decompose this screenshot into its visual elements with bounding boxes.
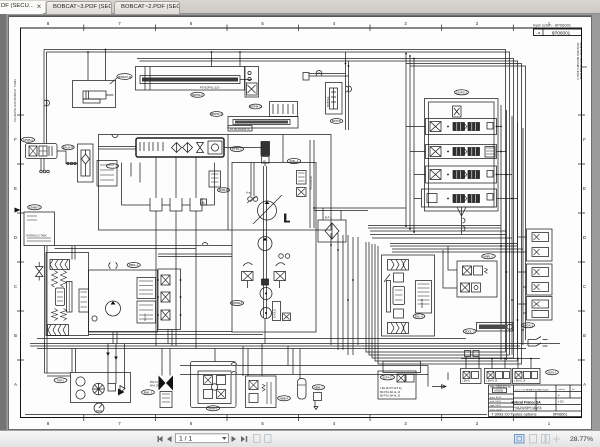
check valves pair — [279, 254, 284, 259]
shaft coupling (dark) — [262, 279, 269, 285]
comb feeder stubs — [131, 157, 196, 198]
svg-text:BDPM-C: BDPM-C — [250, 105, 261, 109]
svg-text:6PVB-1: 6PVB-1 — [23, 138, 33, 142]
pilot feed pair — [248, 163, 280, 289]
bottom-right valve group 2 — [485, 369, 512, 384]
svg-text:BD-PS/L.BA-AL 13: BD-PS/L.BA-AL 13 — [380, 391, 401, 394]
svg-text:6P06001: 6P06001 — [553, 412, 567, 416]
wire drop pair to valve block 6PVB-1 — [44, 50, 47, 144]
right drive: track shoe bottom — [388, 323, 409, 334]
wire drops into top cylinder — [88, 50, 240, 81]
pedal wedges — [159, 376, 166, 391]
cylinder 6LFC barrel dark — [140, 76, 240, 84]
left margin micro text — [13, 79, 17, 122]
svg-text:B P 1: B P 1 — [325, 216, 332, 220]
label oval BOB-P — [218, 188, 230, 193]
svg-text:verif. 04.02: verif. 04.02 — [490, 400, 502, 403]
svg-text:5: 5 — [261, 421, 264, 426]
left rail drops — [113, 332, 300, 379]
zone numbers top — [47, 21, 551, 26]
svg-text:BDTNK: BDTNK — [332, 119, 342, 123]
svg-text:100PS-1: 100PS-1 — [456, 91, 467, 95]
svg-text:3: 3 — [404, 21, 407, 26]
svg-text:10.00.000/0470: 10.00.000/0470 — [230, 127, 250, 131]
drops into bottom clusters — [162, 346, 293, 376]
wire leader from oval — [110, 78, 117, 84]
filter assembly housing — [136, 138, 224, 157]
zone numbers bottom — [47, 421, 551, 426]
drops into groups — [466, 357, 531, 369]
svg-text:C: C — [583, 284, 586, 289]
pilot valve block 6PVB-1 — [26, 144, 58, 159]
pilot lever left — [242, 272, 254, 281]
accumulator — [298, 379, 307, 400]
pedal valve box — [160, 392, 172, 408]
svg-text:BOBTAIL: BOBTAIL — [326, 96, 330, 107]
right drive: motor block — [416, 281, 432, 314]
wire hookups 6MRL-1 — [443, 246, 457, 288]
svg-text:PS-92/PSL/120: PS-92/PSL/120 — [200, 86, 220, 90]
valve at lift cylinder port — [245, 67, 259, 98]
svg-text:BDPM-1: BDPM-1 — [211, 112, 222, 116]
cooler triangles — [118, 389, 125, 396]
cylinder 6BKC piston lines — [83, 91, 114, 103]
svg-text:1 / 1: 1 / 1 — [179, 436, 192, 443]
page input box — [176, 434, 229, 443]
relief hourglass — [197, 143, 204, 153]
svg-text:L.Ba AL 13: L.Ba AL 13 — [514, 380, 526, 383]
svg-text:M: M — [202, 201, 205, 205]
zone row ticks left — [17, 115, 24, 360]
left drive motor housing — [89, 270, 158, 332]
svg-text:606L-1: 606L-1 — [290, 159, 299, 163]
left margin fold marker — [15, 208, 21, 213]
wire pair with hops to sender — [303, 73, 309, 81]
zone letters right — [583, 137, 586, 387]
wire bus 6 — [410, 66, 526, 340]
svg-text:6P06001: 6P06001 — [552, 30, 571, 35]
label oval MWM1A — [230, 301, 243, 306]
pilot valve narrow box — [209, 171, 221, 187]
left drive: shuttle box — [79, 289, 89, 312]
label oval 100PS-1 — [455, 90, 469, 95]
svg-text:MAX 20: MAX 20 — [150, 385, 159, 388]
svg-text:BOB-P: BOB-P — [219, 188, 228, 192]
aux valve small boxes right of pumps — [297, 171, 307, 185]
motor box M — [201, 199, 207, 205]
wire bus 5 — [378, 64, 522, 365]
zone column ticks top — [84, 25, 514, 32]
zone column ticks bottom — [84, 415, 514, 422]
svg-text:6MRL-1: 6MRL-1 — [484, 255, 494, 259]
wire to filter BALN-R — [57, 151, 78, 164]
bottom rail near frame — [25, 414, 487, 416]
svg-text:MBB-1: MBB-1 — [314, 386, 323, 390]
svg-text:A: A — [583, 382, 586, 387]
check valve diamond 1 — [172, 143, 182, 153]
wire bus loop 2 — [47, 52, 510, 355]
svg-text:PBDL-1: PBDL-1 — [129, 263, 139, 267]
cylinder 6LFC (lift) body — [136, 67, 245, 91]
right drive: link top — [394, 273, 404, 282]
svg-text:THR-1: THR-1 — [56, 379, 65, 383]
cylinder 6DDL-2 — [463, 329, 476, 334]
left drive: spring top pair — [52, 271, 67, 288]
svg-text:7: 7 — [118, 421, 121, 426]
label oval MAN-L — [206, 406, 219, 411]
svg-text:MOTOR: MOTOR — [421, 299, 424, 308]
left drive outer housing — [46, 253, 89, 336]
manifold comb structure — [122, 163, 215, 206]
gear pump circle 1 — [260, 288, 272, 300]
charge pump circle — [258, 237, 272, 251]
svg-text:BOBAT-R: BOBAT-R — [118, 75, 132, 79]
hop wires across bottom — [180, 366, 428, 375]
tank suction lines with hop — [55, 246, 264, 335]
left drive: brake valve — [56, 288, 65, 306]
label oval MDA-L — [546, 370, 559, 375]
svg-text:4: 4 — [333, 421, 336, 426]
manifold sub-box left — [97, 161, 117, 187]
drive feed pair — [72, 246, 75, 260]
solenoid block 6MRL-1 — [482, 254, 496, 259]
svg-text:L.Ba AL: L.Ba AL — [462, 380, 471, 383]
pressure gauge below — [94, 403, 104, 413]
aux block MBB-A — [246, 376, 277, 408]
nav: next/last — [232, 436, 248, 442]
right drive: control valve — [393, 287, 405, 305]
svg-text:D: D — [583, 235, 586, 240]
arrow out right — [428, 366, 448, 389]
svg-text:dess. 04.02: dess. 04.02 — [490, 397, 502, 399]
svg-text:E: E — [583, 186, 586, 191]
filter column EVOLD — [273, 302, 281, 321]
svg-text:3: 3 — [404, 421, 407, 426]
wire bus loop 3 — [137, 59, 514, 359]
valve section row 3 — [426, 166, 497, 183]
label oval THR-1 — [54, 378, 67, 383]
bottom long rail 1 — [30, 343, 560, 345]
pilot solenoid atop bank — [453, 106, 462, 117]
svg-text:A: A — [14, 382, 17, 387]
svg-text:6DMB-2: 6DMB-2 — [29, 206, 40, 210]
svg-text:BD-PS/L.BA-AL 10: BD-PS/L.BA-AL 10 — [380, 395, 401, 398]
valve battery box left of pumps — [158, 269, 181, 330]
svg-text:6MDA-1: 6MDA-1 — [523, 323, 534, 327]
svg-text:EVOLD: EVOLD — [273, 309, 277, 318]
valve section row 4 — [422, 189, 497, 207]
title block — [489, 385, 582, 417]
svg-text:ind der.: ind der. — [558, 388, 566, 391]
left drive: track shoe top — [50, 260, 70, 270]
right column valve box 2 — [527, 264, 553, 295]
cylinder 6TLC (tilt) body — [228, 117, 298, 129]
svg-text:2: 2 — [476, 421, 479, 426]
svg-text:hydr schm - 6P06001: hydr schm - 6P06001 — [533, 23, 572, 28]
left long drop wires — [45, 246, 48, 373]
svg-text:7: 7 — [118, 21, 121, 26]
pump block with gauge circle — [208, 141, 222, 154]
svg-text:4: 4 — [333, 21, 336, 26]
svg-text:F: F — [14, 137, 17, 142]
nav: first page — [158, 436, 172, 442]
label oval sender — [330, 119, 342, 124]
drain circles trio — [40, 170, 43, 173]
bottom-right valve group 1 — [461, 369, 482, 384]
svg-text:ECN 04-117 HYD SCHM 6P06: ECN 04-117 HYD SCHM 6P06 — [579, 43, 583, 80]
svg-text:BAL-A: BAL-A — [415, 315, 423, 319]
svg-text:6: 6 — [190, 21, 193, 26]
mid horizontal band wires — [314, 208, 406, 211]
wire stubs to right column — [518, 237, 527, 313]
svg-text:8: 8 — [47, 21, 50, 26]
left drive: lever cyl — [67, 282, 73, 313]
junction dots top band — [87, 49, 415, 67]
check valve diamond 2 — [183, 143, 193, 153]
feeder bar 6STA — [383, 361, 421, 372]
disabled page icons — [254, 435, 272, 443]
reservoir block 6DMB-2 — [28, 205, 42, 210]
L-port thick mark — [284, 214, 290, 223]
comb tooth 2 — [170, 198, 182, 211]
pilot lever right — [274, 272, 286, 281]
right column valve box 1 — [527, 229, 553, 261]
svg-text:F: F — [583, 137, 586, 142]
selector circle with cross — [93, 383, 105, 395]
svg-text:A-a: A-a — [246, 191, 251, 195]
svg-text:BALN-R: BALN-R — [63, 146, 73, 150]
comb drops — [156, 211, 196, 349]
bus stubs into bank rows — [497, 127, 518, 199]
svg-text:5: 5 — [261, 21, 264, 26]
sender unit (level gauge) — [326, 83, 343, 115]
svg-text:MBB-A: MBB-A — [280, 397, 289, 401]
svg-text:s 553: s 553 — [558, 402, 564, 404]
svg-text:CHARGEUSE COMPACTE: CHARGEUSE COMPACTE — [515, 407, 542, 410]
label oval PTRL-1 — [230, 147, 243, 152]
drive motor circle — [106, 301, 121, 316]
svg-text:28.77%: 28.77% — [570, 436, 593, 443]
label oval MBB-A — [278, 396, 291, 401]
right drive: track shoe top — [388, 260, 409, 271]
valve bank outer housing — [425, 99, 499, 212]
gauge circle 2 — [76, 390, 85, 399]
bottom long rail 2 — [30, 345, 520, 347]
steering cluster MAN-L — [191, 362, 237, 408]
svg-text:E: E — [14, 186, 17, 191]
zone row ticks right — [578, 115, 585, 360]
wire double hop — [463, 218, 466, 231]
svg-text:L.Ba AL 10: L.Ba AL 10 — [486, 380, 498, 383]
svg-text:Bobcat France SA: Bobcat France SA — [512, 401, 542, 405]
left drive: track shoe bottom — [48, 325, 69, 336]
flush valve bowtie — [36, 267, 44, 277]
svg-text:2: 2 — [476, 21, 479, 26]
hydrostatic enclosure — [232, 163, 316, 333]
svg-text:MAN-L: MAN-L — [209, 407, 218, 411]
big enclosure box center — [99, 135, 332, 231]
svg-text:date - M000 00.0 kg: date - M000 00.0 kg — [490, 386, 511, 389]
svg-text:6STA-D: 6STA-D — [383, 376, 393, 380]
right revision text strip — [576, 43, 583, 81]
view mode icons — [515, 435, 525, 444]
svg-text:MULTI: MULTI — [144, 313, 147, 321]
wire stub into filter assembly — [99, 142, 164, 151]
svg-text:8: 8 — [47, 421, 50, 426]
filter BALN-R — [62, 145, 74, 150]
svg-text:6DDL-2: 6DDL-2 — [465, 330, 475, 334]
main pump circle (variable) — [258, 201, 277, 220]
bottom rail short — [37, 338, 466, 340]
wire drops beside sender — [346, 52, 349, 130]
center vertical bundle — [331, 233, 358, 355]
valve section row 2 — [426, 145, 497, 159]
right vertical bus bundle — [501, 105, 523, 360]
cylinder 6BKC (bucket) body — [73, 81, 116, 108]
label oval BAL-A — [413, 314, 425, 319]
multi valve cluster right — [137, 278, 156, 299]
label oval BDPM-C — [249, 104, 261, 109]
label oval PBDL-1 — [127, 263, 140, 268]
row stubs to left drops — [406, 127, 426, 199]
case drain circle — [92, 316, 97, 321]
inner enclosure text column — [310, 140, 314, 228]
junction dots on right buses — [496, 126, 524, 331]
small top fittings — [465, 351, 471, 357]
cylinder 6LFC rod — [145, 67, 252, 91]
svg-text:PS-92/PSL/120 BOBCAT T3093: PS-92/PSL/120 BOBCAT T3093 — [13, 79, 17, 122]
label oval 6MDA-1 — [521, 323, 534, 328]
gear pump circle 2 — [261, 308, 272, 319]
svg-text:B: B — [583, 333, 586, 338]
svg-text:MODB: MODB — [495, 389, 504, 393]
bottom-right valve group 3 — [513, 369, 541, 384]
svg-text:fol: fol — [572, 389, 575, 391]
wire tails below bank — [457, 207, 466, 234]
wire mid drops — [406, 54, 414, 233]
cylinder 6BKC barrel — [83, 91, 106, 99]
svg-text:ech 1:1 SCHEMA HYDRAULIQUE: ech 1:1 SCHEMA HYDRAULIQUE — [515, 389, 549, 392]
wires below 6PVB-1 — [41, 159, 44, 171]
right drive housing — [382, 255, 435, 336]
gauge feed drops — [72, 344, 125, 389]
svg-text:B: B — [14, 333, 17, 338]
wire bus loop 4 — [140, 61, 518, 361]
valve box over tilt cylinder — [270, 102, 298, 117]
svg-text:L.Ba 207/07 20.5 kg: L.Ba 207/07 20.5 kg — [380, 387, 402, 390]
svg-text:T 3093 C0 Toutes options: T 3093 C0 Toutes options — [491, 411, 536, 416]
gauge cluster box — [71, 373, 131, 403]
svg-text:MDA-L: MDA-L — [548, 371, 557, 375]
gauge circle 1 — [76, 377, 85, 386]
label oval BWL-1 — [142, 390, 155, 395]
left drive: spring bottom pair — [52, 309, 67, 321]
bottom-right feeder bus — [461, 358, 540, 360]
right column valve box 3 — [527, 297, 553, 321]
svg-text:C: C — [14, 284, 17, 289]
label oval 6TLC — [210, 112, 223, 117]
top-right part number box — [534, 29, 582, 36]
drain valve under MBB-1 — [314, 393, 322, 401]
svg-text:A: A — [558, 394, 560, 397]
comb tooth 1 — [150, 198, 162, 211]
wire bus loop 1 — [44, 50, 506, 353]
label oval BDPM-2 — [191, 92, 205, 97]
shaft arc marks — [109, 263, 117, 269]
label oval BALN-C — [107, 164, 119, 169]
svg-text:appr. 04.02: appr. 04.02 — [490, 404, 502, 407]
svg-text:D: D — [14, 235, 17, 240]
breaker switches lower right — [528, 337, 548, 347]
selector aux box — [108, 384, 116, 392]
svg-text:BDPM-2: BDPM-2 — [192, 93, 203, 97]
comb tooth 3 — [190, 198, 202, 211]
svg-text:6: 6 — [190, 421, 193, 426]
wire to solenoid — [224, 147, 261, 149]
label oval 6PVB-1 — [21, 137, 34, 142]
bottom long rail 3 — [37, 348, 526, 350]
valve section row 1 — [426, 119, 497, 135]
label oval 606L-1 — [287, 159, 300, 164]
right drive: link bottom — [394, 309, 404, 318]
label oval BOBAT-R — [117, 74, 132, 80]
block 6STA-D — [378, 371, 416, 399]
svg-text:- a: - a — [536, 31, 540, 35]
svg-text:HYDROSTAT: HYDROSTAT — [310, 175, 313, 190]
svg-text:HYDRAULIC TANK: HYDRAULIC TANK — [26, 235, 47, 238]
wires from BP1 up — [323, 208, 341, 220]
svg-text:1: 1 — [548, 421, 551, 426]
drive shaft double line — [264, 166, 267, 344]
wire hop on left pair — [44, 100, 50, 106]
label oval MBB-1 — [312, 385, 324, 390]
cylinder 6TLC barrel dark — [233, 120, 290, 125]
right drive: lever bar — [387, 281, 391, 313]
svg-text:BWL-1: BWL-1 — [144, 391, 153, 395]
svg-text:MWM1A: MWM1A — [232, 301, 243, 305]
junction dots center — [313, 207, 415, 301]
solenoid cartridge (dark) — [261, 142, 270, 156]
zone letters left — [14, 137, 17, 387]
part label box center top — [228, 126, 252, 132]
relief valve small — [283, 313, 291, 321]
